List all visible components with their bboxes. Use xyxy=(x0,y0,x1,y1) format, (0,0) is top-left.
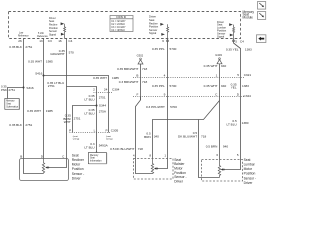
svg-text:2751: 2751 xyxy=(99,96,106,100)
bus from C324 pin C to middle pot pin 8 xyxy=(153,101,220,159)
svg-text:275A: 275A xyxy=(99,110,107,114)
svg-text:C305: C305 xyxy=(111,129,119,133)
svg-text:S416: S416 xyxy=(35,72,43,76)
CONN ID table xyxy=(110,16,133,32)
memory seat module label xyxy=(243,10,255,20)
svg-text:Seat: Seat xyxy=(244,158,251,162)
svg-text:570: 570 xyxy=(69,50,74,54)
svg-text:Low: Low xyxy=(19,33,24,35)
svg-text:Memory: Memory xyxy=(90,154,99,157)
recline sensor signal text block TB1 xyxy=(149,15,159,36)
connector C305 xyxy=(70,132,112,134)
svg-text:Memory: Memory xyxy=(6,100,15,103)
svg-text:2: 2 xyxy=(93,87,95,91)
svg-text:Sensor -: Sensor - xyxy=(244,176,256,180)
svg-text:F: F xyxy=(137,92,139,96)
wire w6 0.35 PPL 5700 xyxy=(167,39,169,159)
svg-text:Position: Position xyxy=(244,172,256,176)
svg-text:5700: 5700 xyxy=(170,84,177,88)
left pot wiper xyxy=(45,166,47,168)
svg-text:940: 940 xyxy=(223,145,228,149)
svg-text:5: 5 xyxy=(237,73,239,77)
svg-text:0.5 BRN: 0.5 BRN xyxy=(206,145,218,149)
middle pot label column xyxy=(174,158,186,184)
svg-text:LT BLU: LT BLU xyxy=(84,111,94,115)
svg-text:0.3 BRN/WHT: 0.3 BRN/WHT xyxy=(119,80,139,84)
svg-text:C4 = 48 BLK: C4 = 48 BLK xyxy=(111,29,125,32)
svg-text:Signal: Signal xyxy=(149,31,157,35)
svg-text:0.3 PPL/WHT: 0.3 PPL/WHT xyxy=(146,105,165,109)
svg-text:1383: 1383 xyxy=(242,84,249,88)
C305 right half note xyxy=(106,135,113,141)
svg-text:CONN ID: CONN ID xyxy=(116,16,126,19)
branch S344 left to C305, 0.35 BRN/WHT 2751 xyxy=(73,106,97,133)
svg-text:C324: C324 xyxy=(244,94,252,98)
svg-text:2751: 2751 xyxy=(74,117,81,121)
svg-text:24: 24 xyxy=(104,87,108,91)
svg-text:(seat: (seat xyxy=(73,135,78,138)
memory seat module dashed box xyxy=(9,12,241,39)
svg-text:Driver: Driver xyxy=(72,176,82,180)
wire w5 0.35 BRN/WHT 718 xyxy=(140,64,142,100)
splice S416 xyxy=(43,75,45,77)
svg-text:718: 718 xyxy=(138,147,143,151)
svg-text:1380: 1380 xyxy=(242,121,249,125)
svg-text:0.35 BLK: 0.35 BLK xyxy=(9,45,23,49)
svg-text:Motor: Motor xyxy=(244,167,253,171)
svg-text:718: 718 xyxy=(142,67,147,71)
w3 branch to C304 pin 2, 0.35 LT BLU 2751 xyxy=(67,87,97,93)
svg-text:Motor: Motor xyxy=(72,163,81,167)
connector row C2 (pins B,4,1,5) C321 xyxy=(133,77,245,79)
svg-text:1985: 1985 xyxy=(46,109,53,113)
low reference label xyxy=(18,33,29,38)
svg-text:0.35 WHT: 0.35 WHT xyxy=(27,109,41,113)
svg-text:S344: S344 xyxy=(99,104,107,108)
5 volt reference label xyxy=(37,32,48,38)
svg-text:Signal: Signal xyxy=(217,34,225,38)
wire below C304 pin24 xyxy=(108,93,110,133)
svg-text:0.35 WHT: 0.35 WHT xyxy=(204,64,218,68)
svg-text:Signal: Signal xyxy=(49,33,56,36)
svg-text:PNK: PNK xyxy=(1,88,7,92)
svg-text:9: 9 xyxy=(164,93,166,97)
svg-text:1383: 1383 xyxy=(245,48,252,52)
reference box: memory seat information xyxy=(88,153,106,164)
svg-text:13: 13 xyxy=(39,39,43,43)
svg-text:340: 340 xyxy=(154,135,159,139)
svg-text:BRN: BRN xyxy=(144,135,151,139)
dk blu/wht wire from bus to right pot bottom xyxy=(199,120,220,178)
svg-text:0.35 PPL: 0.35 PPL xyxy=(152,47,165,51)
svg-text:26: 26 xyxy=(18,39,22,43)
left pot resistive element xyxy=(42,159,44,174)
svg-text:G303: G303 xyxy=(215,53,222,57)
back-arrow icon xyxy=(257,35,266,43)
wire w3 0.35 GRA/WHT 570 xyxy=(66,39,68,159)
svg-text:LT BLU: LT BLU xyxy=(226,122,236,126)
svg-text:2751: 2751 xyxy=(48,84,55,88)
right potentiometer dashed box xyxy=(202,160,243,182)
svg-text:0.35 BLK: 0.35 BLK xyxy=(9,123,23,127)
w5 jog below F to middle pot terminal, 0.5 DK BLU/WHT 718 xyxy=(136,97,141,159)
svg-text:Information: Information xyxy=(90,159,102,162)
svg-text:C321: C321 xyxy=(244,73,252,77)
connector C304 xyxy=(94,92,114,94)
TB2 signal arrows and stub with zigzag xyxy=(229,23,234,40)
svg-text:P: P xyxy=(106,128,108,132)
hotlink icon 2 xyxy=(258,12,266,20)
svg-text:Driver: Driver xyxy=(244,181,254,185)
lumbar sensor signal text block TB2 xyxy=(217,20,227,39)
svg-text:6: 6 xyxy=(162,39,164,43)
svg-text:5493A: 5493A xyxy=(99,144,109,148)
svg-text:0.35 WHT: 0.35 WHT xyxy=(93,76,107,80)
svg-text:16: 16 xyxy=(58,39,62,43)
svg-text:Reference: Reference xyxy=(37,35,48,38)
left pot label column xyxy=(72,153,85,180)
svg-text:YEL: YEL xyxy=(231,86,237,90)
svg-text:(seat: (seat xyxy=(106,135,111,138)
svg-text:GRA/WHT: GRA/WHT xyxy=(50,52,65,56)
svg-text:0.35 WHT: 0.35 WHT xyxy=(204,84,218,88)
svg-text:Reference: Reference xyxy=(18,35,29,38)
wire w4 below C304 pin2, 0.35 LT BLU 2751 xyxy=(96,93,98,153)
svg-text:L: L xyxy=(94,128,96,132)
svg-text:1: 1 xyxy=(216,74,218,78)
wire branch S416 to C304 pin 24 xyxy=(44,76,109,93)
svg-text:940: 940 xyxy=(221,84,226,88)
svg-text:0.35 YEL: 0.35 YEL xyxy=(226,48,239,52)
TB0 signal arrows and stub with zigzag xyxy=(61,22,66,38)
svg-text:Lumbar: Lumbar xyxy=(244,163,256,167)
svg-text:0.5 DK BLU/WHT: 0.5 DK BLU/WHT xyxy=(110,147,134,151)
svg-text:4: 4 xyxy=(164,74,166,78)
svg-text:B: B xyxy=(20,155,22,159)
svg-text:1985: 1985 xyxy=(46,59,53,63)
splice S344 xyxy=(96,105,98,107)
svg-text:G302: G302 xyxy=(137,53,144,57)
svg-text:0.35 BRN/WHT: 0.35 BRN/WHT xyxy=(117,67,138,71)
recline sensor signal text block TB0 xyxy=(49,17,59,37)
svg-text:C3: C3 xyxy=(48,39,52,43)
middle pot internal wiring xyxy=(136,159,153,174)
middle pot wiper xyxy=(154,167,156,169)
svg-text:Sensor -: Sensor - xyxy=(72,172,84,176)
middle pot resistive element xyxy=(151,159,153,174)
svg-text:2751: 2751 xyxy=(25,45,32,49)
svg-text:Seat: Seat xyxy=(90,157,95,160)
svg-text:LT BLU: LT BLU xyxy=(84,145,94,149)
splice S316 xyxy=(23,87,25,89)
svg-text:Driver: Driver xyxy=(174,179,184,183)
svg-text:Module: Module xyxy=(243,16,254,20)
svg-text:C4: C4 xyxy=(240,39,244,43)
wire w2 0.35 WHT 1985 xyxy=(43,39,45,159)
svg-text:718: 718 xyxy=(201,135,206,139)
svg-text:Recliner: Recliner xyxy=(72,158,85,162)
svg-text:Schematics: Schematics xyxy=(6,105,19,108)
svg-text:718: 718 xyxy=(142,80,147,84)
svg-text:5700: 5700 xyxy=(170,105,177,109)
wire branch to schematics box, 0.35 PNK 2751 xyxy=(8,88,24,99)
svg-text:B: B xyxy=(136,73,138,77)
connector row C324 (pins F,9,C,D) xyxy=(133,96,245,98)
svg-text:P: P xyxy=(69,128,71,132)
right pot resistive element xyxy=(218,160,220,178)
svg-text:WHT: WHT xyxy=(64,120,71,124)
TB1 signal arrows and stub with zigzag xyxy=(160,23,168,39)
reference box: seat schematics xyxy=(5,99,20,110)
svg-text:Seat: Seat xyxy=(72,153,79,157)
middle potentiometer dashed box xyxy=(134,159,174,180)
svg-text:0.35 WHT: 0.35 WHT xyxy=(28,59,42,63)
svg-text:C304: C304 xyxy=(112,88,120,92)
wire w8 0.35 WHT 940 xyxy=(219,64,221,160)
svg-text:0.35 PPL: 0.35 PPL xyxy=(152,84,165,88)
left pot internal wiring xyxy=(24,159,44,174)
svg-text:wiring): wiring) xyxy=(106,138,113,141)
svg-text:5: 5 xyxy=(235,39,237,43)
svg-text:LT BLU: LT BLU xyxy=(84,97,94,101)
hotlink icon 1 (top right) xyxy=(258,2,266,10)
svg-text:5 Volt: 5 Volt xyxy=(38,32,44,35)
svg-text:wiring): wiring) xyxy=(73,138,80,141)
svg-text:S316: S316 xyxy=(26,86,34,90)
wire w7 from module pin 5 (0.35 YEL 1383) xyxy=(234,40,241,160)
wire w1 0.35 BLK 2751 xyxy=(23,39,25,159)
svg-text:940: 940 xyxy=(221,64,226,68)
right pot wiper xyxy=(221,168,223,170)
svg-text:Position: Position xyxy=(72,167,84,171)
svg-text:Seat: Seat xyxy=(6,103,11,106)
svg-text:DK BLU/WHT: DK BLU/WHT xyxy=(178,135,197,139)
svg-text:2751: 2751 xyxy=(9,88,16,92)
left potentiometer box (seat recliner motor position sensor) xyxy=(20,159,69,181)
C305 left half note xyxy=(73,135,80,141)
svg-text:2751: 2751 xyxy=(25,123,32,127)
right pot label column xyxy=(244,158,256,185)
svg-text:C4: C4 xyxy=(68,39,72,43)
svg-text:5700: 5700 xyxy=(170,47,177,51)
